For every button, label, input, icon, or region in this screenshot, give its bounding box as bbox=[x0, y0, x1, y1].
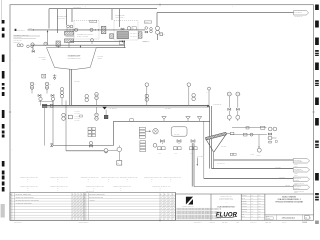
svg-text:SCRUBBER FEED: SCRUBBER FEED bbox=[57, 16, 67, 18]
svg-text:SCRUBBER RECYCLE PUMPS: SCRUBBER RECYCLE PUMPS bbox=[77, 33, 93, 35]
svg-text:2‑SL‑1216: 2‑SL‑1216 bbox=[279, 177, 284, 179]
svg-text:2‑SL‑1214‑06: 2‑SL‑1214‑06 bbox=[294, 159, 301, 161]
svg-text:NOTE 2: NOTE 2 bbox=[29, 28, 33, 30]
svg-text:2‑SL‑1201: 2‑SL‑1201 bbox=[98, 56, 104, 58]
svg-text:PK‑2101: PK‑2101 bbox=[143, 40, 147, 42]
svg-text:2‑LBM10‑05‑2″‑SL‑1210‑06″‑H30: 2‑LBM10‑05‑2″‑SL‑1210‑06″‑H30 bbox=[144, 177, 162, 179]
svg-text:2‑LBM10‑05‑2″‑SL‑1210‑06″‑H30: 2‑LBM10‑05‑2″‑SL‑1210‑06″‑H30 bbox=[20, 186, 38, 188]
svg-text:2‑SL‑1211‑10″: 2‑SL‑1211‑10″ bbox=[214, 104, 223, 106]
svg-text:TO SLURRY PMP: TO SLURRY PMP bbox=[294, 170, 303, 172]
svg-text:dwg‑2101.dgn: dwg‑2101.dgn bbox=[14, 222, 22, 224]
svg-text:FV‑210: FV‑210 bbox=[158, 153, 162, 155]
svg-text:2‑LBM10‑05‑2″‑SL‑1210‑06″‑H30: 2‑LBM10‑05‑2″‑SL‑1210‑06″‑H30 bbox=[50, 186, 68, 188]
svg-text:2‑LBM10‑05‑2″‑SL‑1210‑06″‑H30: 2‑LBM10‑05‑2″‑SL‑1210‑06″‑H30 bbox=[50, 177, 68, 179]
svg-text:REF: 2100: REF: 2100 bbox=[222, 222, 228, 224]
svg-text:2‑SL‑1210‑10″: 2‑SL‑1210‑10″ bbox=[109, 108, 118, 110]
svg-text:ISSUED FOR CONSTRUCTION: ISSUED FOR CONSTRUCTION bbox=[16, 197, 34, 199]
svg-text:2‑CW‑1104‑03″: 2‑CW‑1104‑03″ bbox=[14, 40, 23, 42]
svg-text:NOTE 6: NOTE 6 bbox=[294, 174, 298, 176]
svg-text:2‑SL‑1212: 2‑SL‑1212 bbox=[75, 115, 80, 117]
svg-text:2‑SL‑1217‑04: 2‑SL‑1217‑04 bbox=[294, 186, 301, 188]
svg-text:PLOT: 10/21/94: PLOT: 10/21/94 bbox=[194, 222, 202, 224]
svg-text:NO: NO bbox=[10, 194, 12, 196]
svg-text:2‑SL‑1214‑06″: 2‑SL‑1214‑06″ bbox=[217, 163, 225, 165]
svg-text:NOTE 6: NOTE 6 bbox=[294, 184, 298, 186]
svg-text:NOTE 6: NOTE 6 bbox=[294, 165, 298, 167]
svg-text:2‑SL‑1215‑03: 2‑SL‑1215‑03 bbox=[295, 12, 302, 14]
svg-text:NOTE 5: NOTE 5 bbox=[42, 59, 46, 61]
svg-text:2‑SL‑1217: 2‑SL‑1217 bbox=[285, 185, 290, 187]
svg-text:2‑LBM10‑05‑2″‑SL‑1210‑06″‑H30: 2‑LBM10‑05‑2″‑SL‑1210‑06″‑H30 bbox=[113, 186, 131, 188]
svg-text:SCRUBBER SLURRY: SCRUBBER SLURRY bbox=[68, 55, 81, 57]
svg-text:2‑LBM10‑05‑2″‑SL‑1210‑06″‑H30: 2‑LBM10‑05‑2″‑SL‑1210‑06″‑H30 bbox=[153, 186, 171, 188]
svg-text:FV‑210: FV‑210 bbox=[190, 153, 194, 155]
svg-text:USER: JDS: USER: JDS bbox=[265, 222, 271, 224]
svg-text:2‑SL‑1216‑04: 2‑SL‑1216‑04 bbox=[294, 178, 301, 180]
svg-text:SP: SP bbox=[118, 163, 120, 165]
svg-text:2‑LBM10‑05‑2″‑SL‑1210‑06″‑H30: 2‑LBM10‑05‑2″‑SL‑1210‑06″‑H30 bbox=[20, 177, 38, 179]
svg-text:XREF: XREF bbox=[236, 222, 239, 224]
svg-text:TO SUMP: TO SUMP bbox=[294, 180, 299, 182]
svg-text:2‑FW‑1103‑02: 2‑FW‑1103‑02 bbox=[73, 7, 81, 9]
svg-text:PK‑2101: PK‑2101 bbox=[250, 154, 254, 156]
svg-text:NOTE 7: NOTE 7 bbox=[91, 21, 95, 23]
svg-text:FILE: 2101: FILE: 2101 bbox=[210, 222, 216, 224]
svg-text:PROJ MGR: PROJ MGR bbox=[242, 211, 247, 213]
svg-text:FC: FC bbox=[163, 34, 165, 36]
svg-text:2‑CW‑1101‑04″: 2‑CW‑1101‑04″ bbox=[17, 29, 26, 31]
svg-text:CHECKED: CHECKED bbox=[242, 201, 247, 203]
svg-text:2‑LBM10‑05‑2″‑SL‑1210‑06″‑H30: 2‑LBM10‑05‑2″‑SL‑1210‑06″‑H30 bbox=[163, 177, 181, 179]
svg-text:2‑LBM10‑05‑2″‑SL‑1210‑06″‑H30: 2‑LBM10‑05‑2″‑SL‑1210‑06″‑H30 bbox=[86, 186, 104, 188]
svg-text:NOTE 2: NOTE 2 bbox=[98, 58, 102, 60]
svg-text:REVISIONS / DESCRIPTION: REVISIONS / DESCRIPTION bbox=[89, 194, 105, 196]
svg-text:NONE: NONE bbox=[267, 218, 270, 220]
svg-text:2‑SL‑1214: 2‑SL‑1214 bbox=[75, 120, 80, 122]
svg-text:2‑SL‑1210: 2‑SL‑1210 bbox=[75, 111, 80, 113]
svg-text:NOTE 1: NOTE 1 bbox=[145, 22, 149, 24]
svg-text:FV‑210: FV‑210 bbox=[174, 153, 178, 155]
svg-text:REVISED PER DCN 102: REVISED PER DCN 102 bbox=[89, 197, 103, 199]
svg-text:2‑101‑D: 2‑101‑D bbox=[302, 222, 307, 224]
svg-text:2‑SL‑1215: 2‑SL‑1215 bbox=[275, 167, 280, 169]
svg-text:2‑LBM10‑05‑2″‑SL‑1210‑06″‑H30: 2‑LBM10‑05‑2″‑SL‑1210‑06″‑H30 bbox=[101, 177, 119, 179]
svg-text:NOTE 6: NOTE 6 bbox=[294, 192, 298, 194]
svg-text:2‑SL‑1213: 2‑SL‑1213 bbox=[221, 146, 227, 148]
svg-text:2‑SL‑1206‑04″: 2‑SL‑1206‑04″ bbox=[130, 33, 137, 35]
svg-text:REVISIONS / DESCRIPTION: REVISIONS / DESCRIPTION bbox=[16, 194, 32, 196]
svg-text:PROJ ENGR: PROJ ENGR bbox=[242, 208, 248, 210]
svg-text:2‑SL‑1215‑08: 2‑SL‑1215‑08 bbox=[294, 168, 301, 170]
svg-text:2‑LBM10‑05‑2″‑SL‑1210‑06″‑H30: 2‑LBM10‑05‑2″‑SL‑1210‑06″‑H30 bbox=[120, 177, 138, 179]
svg-text:10/21/94: 10/21/94 bbox=[282, 222, 287, 224]
svg-text:2‑SL‑1207‑04″: 2‑SL‑1207‑04″ bbox=[130, 36, 137, 38]
svg-text:TO THICKENER: TO THICKENER bbox=[294, 161, 302, 163]
svg-text:2‑SL‑1210: 2‑SL‑1210 bbox=[74, 81, 80, 83]
svg-text:TO SLURRY TK: TO SLURRY TK bbox=[295, 16, 303, 18]
svg-text:PUMP PK‑2101B: PUMP PK‑2101B bbox=[115, 17, 123, 19]
svg-text:NO: NO bbox=[84, 194, 86, 196]
svg-text:2‑SL‑1211: 2‑SL‑1211 bbox=[75, 113, 80, 115]
svg-text:DESIGNED: DESIGNED bbox=[242, 195, 247, 197]
svg-text:2‑LBM10‑05‑2″‑SL‑1210‑06″‑H30: 2‑LBM10‑05‑2″‑SL‑1210‑06″‑H30 bbox=[81, 177, 99, 179]
svg-text:NOTE 4: NOTE 4 bbox=[257, 155, 261, 157]
svg-text:45% SLURRY: 45% SLURRY bbox=[38, 57, 46, 59]
svg-text:2‑SL‑1213: 2‑SL‑1213 bbox=[75, 118, 80, 120]
svg-text:2‑SL‑1210: 2‑SL‑1210 bbox=[165, 108, 171, 110]
svg-text:2‑SL‑1212: 2‑SL‑1212 bbox=[198, 156, 204, 158]
svg-text:2‑FD‑1210‑101‑D: 2‑FD‑1210‑101‑D bbox=[282, 217, 296, 219]
